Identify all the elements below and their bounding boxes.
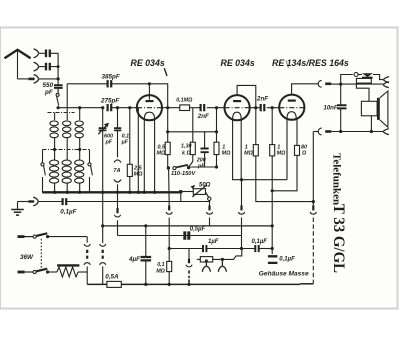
svg-text:0,1µF: 0,1µF [60,208,76,215]
svg-text:385pF: 385pF [102,74,120,81]
svg-text:1: 1 [222,144,225,150]
svg-text:1µF: 1µF [208,239,219,245]
svg-text:1,30: 1,30 [181,144,192,150]
svg-text:1: 1 [277,144,280,150]
svg-text:0,5µF: 0,5µF [190,227,206,233]
svg-text:2nF: 2nF [256,96,268,103]
svg-text:pF: pF [105,140,113,146]
svg-text:RE 034s: RE 034s [221,58,255,68]
svg-text:2,5: 2,5 [133,165,143,171]
svg-text:200: 200 [196,157,206,163]
svg-text:0,1µF: 0,1µF [279,257,295,263]
svg-text:T 33 G/GL: T 33 G/GL [330,204,348,273]
svg-text:MΩ: MΩ [134,172,144,178]
svg-text:µF: µF [121,140,129,146]
svg-text:7A: 7A [113,168,120,174]
svg-text:0,1µF: 0,1µF [252,239,268,245]
svg-text:MΩ: MΩ [222,150,231,156]
svg-text:MΩ: MΩ [277,150,286,156]
svg-text:k Ω: k Ω [182,150,191,156]
svg-text:80: 80 [301,144,307,150]
svg-text:110-150V: 110-150V [171,171,196,177]
svg-text:pF: pF [44,89,53,96]
svg-text:10nF: 10nF [324,106,338,112]
svg-text:0,5A: 0,5A [105,274,119,281]
svg-text:RE 134s/RES 164s: RE 134s/RES 164s [272,58,349,68]
svg-text:50Ω: 50Ω [199,182,211,188]
svg-text:0,1: 0,1 [157,262,165,268]
svg-text:275pF: 275pF [100,97,119,104]
svg-text:Telefunken: Telefunken [331,153,343,205]
svg-text:2nF: 2nF [197,113,209,120]
svg-text:0,1MΩ: 0,1MΩ [176,98,193,104]
svg-text:4µF: 4µF [128,256,140,263]
svg-text:RE 034s: RE 034s [131,58,165,68]
svg-text:MΩ: MΩ [244,150,253,156]
svg-text:Gehäuse Masse: Gehäuse Masse [259,271,309,278]
svg-text:MΩ: MΩ [157,150,166,156]
svg-text:pF: pF [197,164,205,170]
svg-text:36W: 36W [20,254,34,261]
svg-text:0,5: 0,5 [158,144,166,150]
svg-text:Ω: Ω [301,150,307,156]
svg-text:MΩ: MΩ [156,268,165,274]
svg-text:1: 1 [245,144,248,150]
